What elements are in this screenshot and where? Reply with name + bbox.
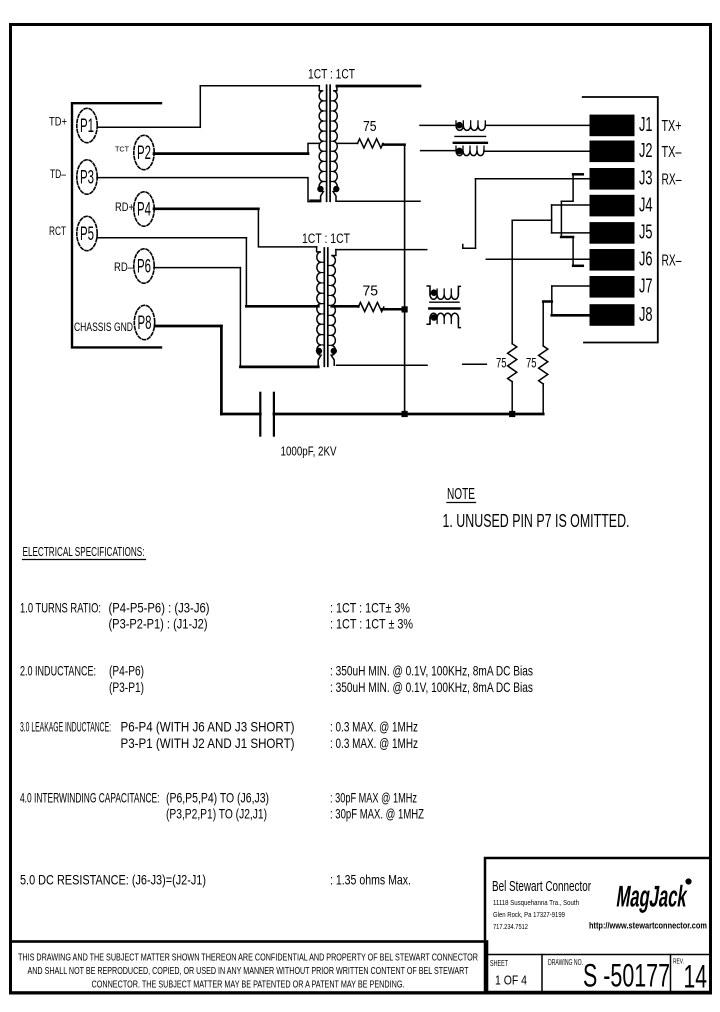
pin header box outline	[72, 103, 161, 347]
wire to J8	[552, 314, 590, 317]
svg-text:J4: J4	[639, 194, 653, 216]
svg-text:: 30pF MAX. @ 1MHZ: : 30pF MAX. @ 1MHZ	[330, 806, 424, 822]
svg-text:J8: J8	[639, 304, 653, 326]
junction R2-riser	[402, 307, 407, 312]
svg-text:: 0.3 MAX. @ 1MHz: : 0.3 MAX. @ 1MHz	[330, 735, 418, 751]
svg-text:: 1.35 ohms Max.: : 1.35 ohms Max.	[330, 872, 411, 888]
svg-text:SHEET: SHEET	[490, 958, 508, 968]
T2 core	[323, 248, 325, 366]
contact pad J1	[590, 115, 634, 136]
junction riser404-bus	[402, 411, 407, 416]
pin P8	[134, 305, 154, 339]
wire riser x512	[511, 220, 513, 343]
svg-text:P2: P2	[137, 143, 151, 164]
choke L2 bottom winding	[427, 318, 430, 324]
MagJack logo	[615, 881, 690, 914]
choke L1 bottom winding	[456, 151, 484, 156]
wire to J3	[476, 178, 591, 180]
title block divider drawing/rev	[670, 955, 672, 993]
svg-text:THIS DRAWING AND THE SUBJECT M: THIS DRAWING AND THE SUBJECT MATTER SHOW…	[18, 952, 478, 964]
svg-text:TD+: TD+	[49, 117, 67, 129]
svg-text:2.0 INDUCTANCE:: 2.0 INDUCTANCE:	[20, 663, 96, 679]
svg-text:(P3-P2-P1) : (J1-J2): (P3-P2-P1) : (J1-J2)	[109, 616, 208, 632]
svg-text:RD–: RD–	[114, 262, 133, 274]
choke L1 bottom input wire	[421, 150, 456, 152]
svg-text:Bel Stewart Connector: Bel Stewart Connector	[492, 879, 591, 895]
svg-text:NOTE: NOTE	[447, 486, 475, 503]
wire R4 to bus	[542, 384, 544, 414]
svg-text:(P3,P2,P1) TO (J2,J1): (P3,P2,P1) TO (J2,J1)	[166, 806, 267, 822]
wire P5 to riser	[97, 237, 246, 239]
contact pad J6	[590, 250, 634, 271]
title block outline	[485, 858, 711, 992]
pin P3	[77, 160, 97, 194]
wire P8 riser	[220, 326, 223, 414]
svg-text:: 1CT : 1CT ± 3%: : 1CT : 1CT ± 3%	[330, 616, 413, 632]
choke L2 top dot	[431, 290, 437, 296]
svg-text:P1: P1	[80, 116, 94, 137]
wire J7J8 feed	[543, 300, 552, 303]
wire P8 to capacitor	[221, 413, 260, 416]
junction riser512-bus	[510, 411, 515, 416]
pin P2	[134, 135, 154, 169]
svg-text:RCT: RCT	[49, 226, 66, 238]
wire riser x200	[199, 86, 201, 128]
svg-text:11118 Susquehanna Tra., South: 11118 Susquehanna Tra., South	[493, 898, 579, 907]
svg-text:P8: P8	[138, 313, 152, 334]
svg-text:1. UNUSED PIN P7 IS OMITTED.: 1. UNUSED PIN P7 IS OMITTED.	[443, 511, 630, 531]
wire P6 to riser	[154, 267, 240, 269]
svg-text:: 30pF MAX @ 1MHz: : 30pF MAX @ 1MHz	[330, 790, 417, 806]
svg-text:J2: J2	[639, 140, 653, 162]
svg-text:MagJack: MagJack	[615, 881, 690, 914]
disclaimer box	[11, 942, 488, 993]
pin P4	[134, 192, 154, 226]
termination bracket vertical	[560, 201, 562, 237]
choke L1 top input wire	[420, 124, 456, 126]
resistor R4 75 (vertical)	[539, 346, 548, 384]
contact pad J7	[590, 277, 634, 298]
wire riser x404 (R1/R2 to cap bus)	[404, 145, 406, 414]
T2 secondary top wire	[336, 249, 427, 251]
svg-text:75: 75	[496, 355, 507, 371]
T2 primary center tap wire	[246, 305, 318, 308]
resistor R3 75 (vertical)	[508, 344, 517, 382]
svg-text:CHASSIS GND: CHASSIS GND	[74, 320, 133, 334]
svg-text:TCT: TCT	[115, 145, 129, 154]
pin P1	[77, 108, 97, 142]
connector outline	[583, 97, 658, 343]
svg-text:3.0 LEAKAGE INDUCTANCE:: 3.0 LEAKAGE INDUCTANCE:	[20, 719, 111, 735]
svg-text:RX–: RX–	[662, 252, 682, 269]
contact pad J5	[590, 223, 634, 244]
wire J4-J5 bridge	[551, 205, 553, 233]
contact pad J8	[590, 305, 634, 326]
svg-text:J6: J6	[639, 249, 653, 271]
T2 primary phase dot	[316, 348, 321, 353]
T2 secondary winding	[331, 250, 336, 366]
wire P3 to T1 primary bottom	[97, 178, 321, 202]
wire to J5	[552, 232, 590, 234]
svg-text:P6: P6	[137, 257, 151, 278]
wire J4J5 feed	[512, 219, 551, 221]
svg-text:(P3-P1): (P3-P1)	[109, 679, 144, 695]
svg-text:5.0 DC RESISTANCE: (J6-J3)=(J: 5.0 DC RESISTANCE: (J6-J3)=(J2-J1)	[20, 872, 206, 888]
T2 secondary phase dot	[331, 348, 336, 353]
choke L2 core	[430, 301, 459, 303]
wire P5 riser	[245, 238, 247, 305]
svg-text:Glen Rock, Pa 17327-9199: Glen Rock, Pa 17327-9199	[493, 910, 565, 919]
svg-text:75: 75	[526, 355, 537, 371]
svg-text:P3-P1 (WITH J2 AND J1 SHORT): P3-P1 (WITH J2 AND J1 SHORT)	[121, 735, 295, 751]
wire to J4	[552, 204, 590, 206]
wire to J6	[486, 258, 590, 260]
T1 secondary top wire to node	[337, 85, 420, 88]
svg-text:CONNECTOR. THE SUBJECT MATTER: CONNECTOR. THE SUBJECT MATTER MAY BE PAT…	[92, 979, 405, 991]
svg-text:J1: J1	[639, 114, 653, 136]
svg-text:TD–: TD–	[50, 169, 66, 181]
title block divider sheet/drawing	[541, 955, 543, 993]
contact pad J2	[590, 141, 634, 162]
wire P2 center tap	[154, 152, 308, 155]
choke L1 top dot	[457, 122, 463, 128]
wire J3 riser	[475, 179, 477, 249]
svg-text:TX+: TX+	[662, 118, 682, 135]
title block divider horizontal	[485, 954, 711, 956]
resistor R1 75	[358, 139, 384, 148]
pin P6	[134, 249, 154, 283]
svg-text:TX–: TX–	[662, 144, 682, 161]
svg-text:1000pF, 2KV: 1000pF, 2KV	[281, 444, 337, 459]
T1 secondary winding	[333, 86, 337, 200]
wire to T1 primary top	[200, 85, 319, 87]
wire P6 riser	[239, 268, 241, 367]
svg-text:: 350uH MIN. @ 0.1V, 100KHz,: : 350uH MIN. @ 0.1V, 100KHz, 8mA DC Bias	[330, 679, 533, 695]
svg-text:S -50177: S -50177	[583, 958, 670, 994]
svg-text:75: 75	[363, 118, 377, 135]
wire P1 to riser	[98, 126, 201, 128]
svg-text:J5: J5	[639, 222, 653, 244]
choke L1 core	[455, 135, 486, 137]
T1 secondary phase dot	[334, 186, 339, 191]
T1 secondary bottom wire	[336, 200, 420, 202]
wire riser x543	[542, 302, 544, 346]
svg-text:RD+: RD+	[115, 202, 134, 214]
svg-text:1.0 TURNS RATIO:: 1.0 TURNS RATIO:	[20, 600, 101, 616]
T2 secondary bottom wire	[337, 364, 428, 366]
choke L1 top winding	[456, 125, 485, 130]
resistor R2 75	[358, 302, 384, 311]
T1 primary bottom terminal	[310, 199, 321, 201]
svg-text:P4: P4	[137, 200, 151, 221]
svg-text:ELECTRICAL SPECIFICATIONS:: ELECTRICAL SPECIFICATIONS:	[23, 544, 145, 559]
termination bracket top stub	[573, 173, 583, 176]
svg-text:1 OF 4: 1 OF 4	[495, 973, 527, 988]
wire P4 to T2 primary top	[154, 207, 258, 210]
T2 secondary bottom wire segment	[463, 363, 487, 365]
T1 primary center tap step	[308, 143, 319, 153]
svg-text:RX–: RX–	[662, 171, 682, 188]
T1 primary phase dot	[318, 186, 323, 191]
T1 core	[326, 85, 328, 201]
svg-text:: 350uH MIN. @ 0.1V, 100KHz,: : 350uH MIN. @ 0.1V, 100KHz, 8mA DC Bias	[330, 663, 533, 679]
svg-text:(P6,P5,P4) TO (J6,J3): (P6,P5,P4) TO (J6,J3)	[166, 790, 269, 806]
svg-text:1CT : 1CT: 1CT : 1CT	[302, 231, 350, 246]
svg-text:75: 75	[363, 283, 379, 300]
R1 output wire	[383, 143, 405, 146]
pin P5	[77, 216, 97, 250]
wire L1 to J1	[485, 124, 590, 126]
wire T2 top stub	[463, 245, 476, 249]
T2 primary bottom wire	[240, 366, 318, 369]
ground bus wire	[274, 413, 543, 416]
wire P4 riser	[258, 209, 316, 247]
svg-text:1CT : 1CT: 1CT : 1CT	[308, 67, 355, 82]
wire R3 to bus	[511, 382, 513, 414]
svg-text:4.0 INTERWINDING CAPACITANCE:: 4.0 INTERWINDING CAPACITANCE:	[20, 790, 160, 806]
termination bracket bottom	[561, 236, 573, 239]
svg-text:P5: P5	[80, 224, 94, 245]
svg-text:http://www.stewartconnector.co: http://www.stewartconnector.com	[589, 921, 707, 931]
svg-text:P6-P4 (WITH J6 AND J3 SHORT): P6-P4 (WITH J6 AND J3 SHORT)	[121, 719, 295, 735]
svg-text:J3: J3	[639, 168, 653, 190]
R2 output wire	[382, 308, 405, 311]
svg-text:P3: P3	[80, 168, 94, 189]
wire to J7	[552, 285, 590, 287]
choke L2 bottom dot	[431, 315, 437, 321]
svg-text:: 1CT : 1CT± 3%: : 1CT : 1CT± 3%	[330, 600, 410, 616]
wire P8 chassis	[155, 325, 221, 328]
capacitor C1 plates	[259, 393, 261, 436]
T2 primary winding	[317, 247, 321, 367]
T1 secondary center tap wire	[337, 142, 358, 144]
svg-text:AND SHALL NOT BE REPRODUCED, C: AND SHALL NOT BE REPRODUCED, COPIED, OR …	[28, 965, 469, 977]
svg-text:717.234.7512: 717.234.7512	[493, 922, 528, 931]
svg-text:J7: J7	[639, 276, 653, 298]
termination bracket bottom jog	[573, 237, 583, 266]
svg-text:(P4-P6): (P4-P6)	[109, 663, 144, 679]
T2 secondary center tap wire	[332, 305, 359, 308]
svg-text:14: 14	[684, 959, 708, 995]
termination bracket bottom stub	[573, 265, 583, 268]
contact pad J3	[590, 169, 634, 190]
contact pad J4	[590, 195, 634, 216]
svg-text:(P4-P5-P6) : (J3-J6): (P4-P5-P6) : (J3-J6)	[109, 600, 210, 616]
wire J7-J8 bridge	[551, 286, 553, 315]
svg-text:REV.: REV.	[673, 957, 684, 966]
svg-text:DRAWING NO.: DRAWING NO.	[548, 958, 583, 967]
T1 primary winding	[319, 86, 323, 200]
choke L1 bottom dot	[457, 148, 463, 154]
svg-text:: 0.3 MAX. @ 1MHz: : 0.3 MAX. @ 1MHz	[330, 719, 418, 735]
choke L2 top winding	[427, 286, 430, 295]
termination bracket top jog	[561, 174, 582, 201]
wire L1 to J2	[484, 150, 590, 152]
